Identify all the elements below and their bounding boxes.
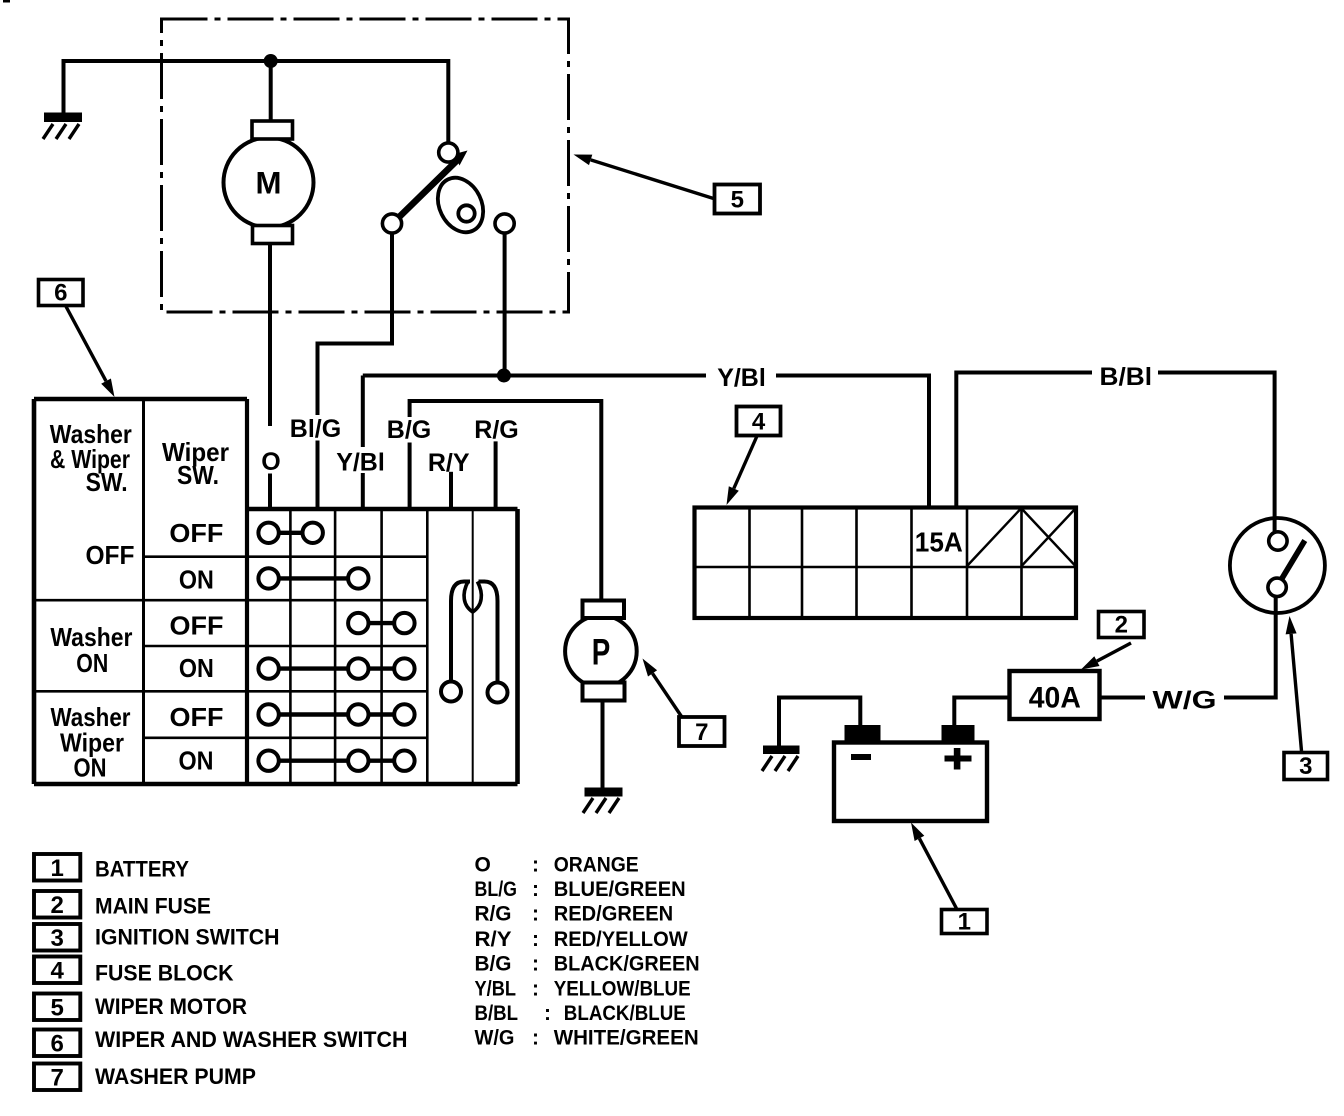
callout 2 main fuse	[1081, 612, 1144, 670]
svg-text:BLACK/BLUE: BLACK/BLUE	[564, 1002, 686, 1025]
color code R/Y red/yellow	[475, 928, 688, 951]
color code W/G white/green	[475, 1027, 699, 1050]
svg-text:ON: ON	[74, 753, 107, 783]
node junction at motor feed	[264, 54, 278, 68]
wiper and washer switch table S6	[34, 399, 518, 784]
callout 1 battery	[911, 823, 987, 936]
svg-text:B/G: B/G	[475, 953, 512, 976]
svg-text:Y/Bl: Y/Bl	[336, 449, 385, 477]
table grid column border	[245, 399, 249, 784]
row labels column 1	[50, 540, 134, 783]
grid divider R/Y-R/G	[472, 509, 474, 784]
svg-text:4: 4	[51, 958, 65, 985]
wire B/Bl fuse block to ignition switch	[956, 373, 1274, 532]
fuse block FB4	[695, 508, 1077, 619]
svg-text::: :	[544, 1002, 551, 1025]
legend item 4 fuse block	[34, 957, 234, 986]
contact row 4 circles	[258, 658, 278, 678]
intermittent contact left	[441, 682, 461, 702]
unused fuse slot X	[1022, 509, 1075, 566]
color code B/BL black/blue	[475, 1002, 686, 1025]
svg-text:W/G: W/G	[475, 1027, 515, 1050]
svg-text:R/Y: R/Y	[475, 928, 512, 951]
motor M (wiper motor)	[224, 121, 314, 244]
svg-text:R/Y: R/Y	[428, 449, 470, 477]
color code Y/BL yellow/blue	[475, 977, 691, 1000]
svg-text:B/BL: B/BL	[475, 1002, 519, 1025]
svg-text:OFF: OFF	[86, 540, 135, 570]
svg-text:WIPER AND WASHER SWITCH: WIPER AND WASHER SWITCH	[95, 1027, 408, 1052]
svg-text:40A: 40A	[1029, 682, 1081, 715]
contact row 3 circles	[348, 613, 368, 633]
ground (wiper motor)	[43, 113, 82, 140]
svg-text:6: 6	[54, 280, 67, 307]
node Y/Bl junction	[497, 369, 511, 383]
callout 6 wiper and washer switch	[39, 280, 115, 398]
wire motor to switch table column O	[268, 244, 272, 511]
main fuse F2 40A	[1010, 671, 1100, 719]
ground (battery)	[762, 746, 800, 772]
svg-text:3: 3	[1299, 753, 1312, 780]
color code O orange	[475, 854, 639, 877]
svg-text::: :	[532, 854, 539, 877]
battery minus mark	[851, 754, 871, 760]
svg-text:O: O	[475, 854, 491, 877]
wire hop loop	[464, 582, 481, 613]
svg-text:7: 7	[695, 719, 708, 746]
color code BL/G blue/green	[475, 878, 686, 901]
contact row 5 circles	[258, 704, 278, 724]
wiper motor assembly dash-dot enclosure U5	[162, 19, 569, 312]
svg-text:4: 4	[752, 409, 766, 436]
svg-text:SW.: SW.	[86, 467, 128, 497]
unused fuse slot diagonal	[968, 509, 1021, 566]
svg-text:WASHER PUMP: WASHER PUMP	[95, 1064, 256, 1089]
svg-text:WHITE/GREEN: WHITE/GREEN	[554, 1027, 699, 1050]
legend item 6 wiper and washer switch	[34, 1027, 408, 1058]
svg-text:1: 1	[958, 909, 971, 936]
contact row 6 circles	[258, 751, 278, 771]
svg-text:5: 5	[51, 995, 64, 1022]
battery B1	[834, 725, 987, 821]
svg-text:2: 2	[51, 892, 64, 919]
wire Y/Bl drop into table	[361, 376, 365, 511]
svg-text:6: 6	[51, 1031, 64, 1058]
contact row 3 link	[358, 621, 404, 625]
wire main fuse to battery positive	[954, 698, 1009, 726]
row labels column 2	[169, 518, 223, 776]
grid horizontals	[34, 557, 427, 738]
svg-text:Bl/G: Bl/G	[290, 415, 341, 443]
svg-text:YELLOW/BLUE: YELLOW/BLUE	[554, 977, 691, 1000]
svg-text:Y/Bl: Y/Bl	[717, 364, 766, 392]
svg-text::: :	[532, 953, 539, 976]
svg-text:BLACK/GREEN: BLACK/GREEN	[554, 953, 700, 976]
park switch contact left	[382, 214, 401, 233]
park switch contact top	[439, 143, 458, 162]
callout 4 fuse block	[727, 407, 781, 506]
svg-text:BATTERY: BATTERY	[95, 856, 189, 881]
svg-text:P: P	[592, 632, 611, 673]
svg-text:SW.: SW.	[177, 460, 219, 490]
callout 7 washer pump	[643, 659, 725, 747]
svg-text:ON: ON	[179, 746, 214, 776]
svg-text:1: 1	[51, 855, 64, 882]
legend item 5 wiper motor	[34, 994, 247, 1022]
wire ignition switch to main fuse W/G	[1100, 597, 1276, 698]
svg-text:M: M	[256, 165, 282, 201]
wire ground to top junction and switch	[64, 61, 449, 144]
svg-text:W/G: W/G	[1153, 687, 1217, 715]
contact row 1 circles	[258, 523, 278, 543]
svg-text:RED/YELLOW: RED/YELLOW	[554, 928, 688, 951]
svg-text::: :	[532, 928, 539, 951]
legend item 2 main fuse	[34, 891, 211, 919]
svg-text:2: 2	[1115, 612, 1128, 639]
svg-text::: :	[532, 903, 539, 926]
wire B/G table to washer pump	[410, 401, 602, 602]
svg-text:MAIN FUSE: MAIN FUSE	[95, 893, 211, 918]
contact row 4 link	[269, 666, 405, 670]
svg-text:B/G: B/G	[387, 416, 431, 444]
contact row 1 link	[269, 531, 313, 535]
wire Y/Bl horizontal run to fuse block	[363, 376, 929, 508]
wire R/G stub	[494, 441, 498, 510]
contact row 6 link	[269, 759, 405, 763]
grid verticals	[290, 509, 427, 784]
park switch cam	[429, 170, 492, 240]
svg-text:Y/BL: Y/BL	[475, 977, 517, 1000]
svg-text:R/G: R/G	[475, 903, 512, 926]
svg-text:BLUE/GREEN: BLUE/GREEN	[554, 878, 686, 901]
wire junction down to motor M	[269, 61, 273, 122]
scan artifact top-left	[3, 0, 10, 3]
svg-text::: :	[532, 878, 539, 901]
callout 5 wiper motor	[574, 155, 761, 214]
svg-text::: :	[532, 977, 539, 1000]
legend item 7 washer pump	[34, 1064, 256, 1092]
svg-text:FUSE BLOCK: FUSE BLOCK	[95, 960, 234, 985]
park switch lever Q	[393, 159, 460, 224]
table header divider	[142, 399, 145, 784]
svg-text:3: 3	[51, 925, 64, 952]
legend item 3 ignition switch	[34, 924, 280, 952]
color code R/G red/green	[475, 903, 674, 926]
svg-text:ON: ON	[76, 648, 108, 678]
svg-text:ORANGE: ORANGE	[554, 854, 639, 877]
svg-text:ON: ON	[179, 653, 214, 683]
svg-text:OFF: OFF	[170, 702, 224, 732]
wire battery negative to ground	[779, 698, 860, 746]
ground (washer pump)	[583, 788, 623, 814]
wire pump to ground	[601, 701, 605, 788]
svg-text:ON: ON	[179, 565, 214, 595]
table header text	[50, 419, 229, 497]
wire Bl/G from switch left contact to table	[318, 233, 393, 510]
washer pump P7	[565, 601, 637, 701]
battery plus mark	[945, 756, 972, 762]
wire from switch right contact down to Y/Bl node	[503, 233, 507, 371]
svg-text:O: O	[261, 448, 280, 476]
svg-text:OFF: OFF	[170, 611, 224, 641]
intermittent contact right	[488, 683, 508, 703]
svg-text:OFF: OFF	[169, 518, 223, 548]
svg-text:IGNITION SWITCH: IGNITION SWITCH	[95, 925, 280, 950]
contact row 2 circles	[258, 568, 278, 588]
wire R/Y stub	[449, 472, 453, 510]
park switch contact right	[495, 214, 514, 233]
svg-text:15A: 15A	[915, 527, 963, 558]
svg-text:5: 5	[731, 187, 744, 214]
contact row 2 link	[269, 576, 359, 580]
svg-text:BL/G: BL/G	[475, 878, 518, 901]
svg-text:7: 7	[51, 1065, 64, 1092]
color code B/G black/green	[475, 953, 700, 976]
svg-text:B/Bl: B/Bl	[1100, 363, 1153, 391]
ignition switch S3	[1230, 518, 1325, 613]
svg-text::: :	[532, 1027, 539, 1050]
intermittent wire left arc	[451, 582, 470, 682]
intermittent wire right arc	[479, 582, 498, 683]
table outer border	[34, 399, 518, 784]
svg-text:WIPER MOTOR: WIPER MOTOR	[95, 994, 247, 1019]
svg-text:R/G: R/G	[474, 416, 518, 444]
callout 3 ignition switch	[1284, 616, 1328, 780]
legend item 1 battery	[34, 854, 189, 882]
svg-text:RED/GREEN: RED/GREEN	[554, 903, 674, 926]
contact row 5 link	[269, 712, 405, 716]
